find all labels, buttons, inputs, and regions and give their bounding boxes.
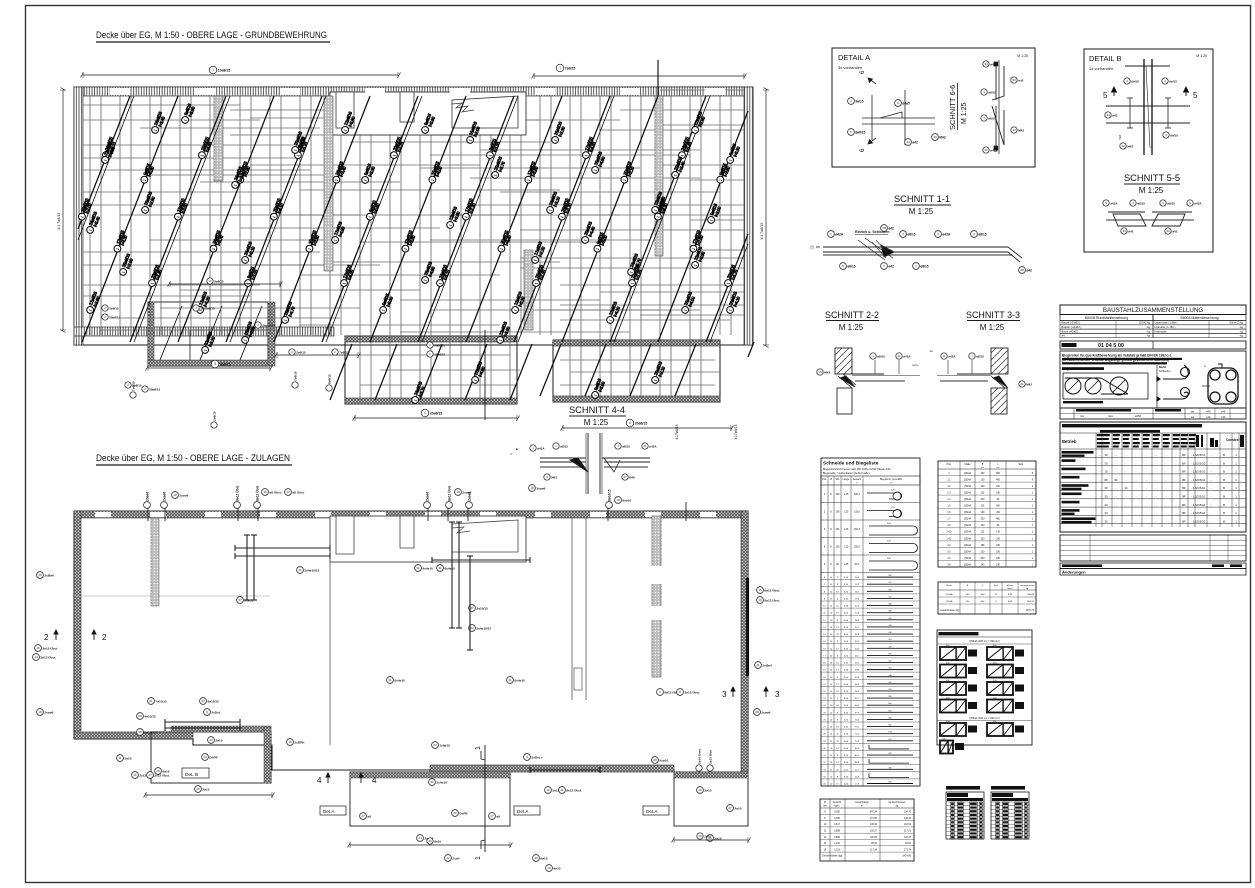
svg-text:2: 2 <box>44 633 49 642</box>
svg-text:Q524A: Q524A <box>946 600 953 603</box>
svg-text:Q524A (230 cm × 600 cm): Q524A (230 cm × 600 cm) <box>969 716 999 720</box>
svg-text:17: 17 <box>148 773 152 777</box>
BAUSTAHLZUSAMMENSTELLUNG table <box>1060 305 1246 315</box>
svg-text:m: m <box>861 806 863 808</box>
svg-text:Decke über EG, M 1:50 - OBERE: Decke über EG, M 1:50 - OBERE LAGE - GRU… <box>96 30 327 40</box>
svg-text:50,0: 50,0 <box>855 563 860 566</box>
svg-text:DETAIL A: DETAIL A <box>838 53 870 62</box>
svg-text:ø4ø5: ø4ø5 <box>902 101 910 105</box>
svg-text:16: 16 <box>38 573 42 577</box>
DETAIL A box <box>832 48 1035 167</box>
svg-text:9ø10: 9ø10 <box>434 839 441 843</box>
svg-text:BF: BF <box>1182 461 1186 465</box>
svg-text:9ø8/15: 9ø8/15 <box>220 362 231 366</box>
svg-text:-: - <box>1100 503 1101 507</box>
svg-text:33: 33 <box>1012 128 1016 132</box>
svg-text:8ø12 Übst.: 8ø12 Übst. <box>764 598 780 602</box>
svg-text:kg/m²: kg/m² <box>1008 587 1013 590</box>
svg-text:ø42: ø42 <box>1128 229 1134 233</box>
svg-text:-: - <box>1100 461 1101 465</box>
svg-text:21: 21 <box>1020 382 1024 386</box>
diagonal rebar lines <box>78 96 754 400</box>
svg-text:2ø10: 2ø10 <box>124 756 131 760</box>
SCHNITT 3-3 drawing <box>937 348 1008 414</box>
svg-text:28: 28 <box>138 714 142 718</box>
lower dims top plan <box>355 417 517 419</box>
zulage bars middle <box>244 522 473 650</box>
svg-text:3x4ø10/15: 3x4ø10/15 <box>304 568 319 572</box>
matten summary table <box>938 582 1036 614</box>
svg-text:3ø12 Übst.: 3ø12 Übst. <box>40 655 56 659</box>
svg-text:8xø10: 8xø10 <box>622 498 631 502</box>
svg-text:-: - <box>1176 478 1177 482</box>
svg-text:-: - <box>1176 503 1177 507</box>
svg-text:-: - <box>1116 511 1117 515</box>
svg-text:BøSt: BøSt <box>1159 365 1166 369</box>
svg-text:-: - <box>1156 486 1157 490</box>
svg-text:-: - <box>1166 478 1167 482</box>
svg-text:B: B <box>1223 470 1225 474</box>
svg-text:11: 11 <box>943 354 946 358</box>
svg-text:ø450: ø450 <box>1135 414 1141 418</box>
svg-text:0,888: 0,888 <box>834 831 840 833</box>
svg-text:146,91: 146,91 <box>904 818 912 820</box>
svg-text:Q524A: Q524A <box>964 472 972 475</box>
svg-text:1: 1 <box>475 856 482 860</box>
svg-text:3x4ø10/15: 3x4ø10/15 <box>476 626 491 630</box>
svg-text:Decke über EG, M 1:50 - OBERE: Decke über EG, M 1:50 - OBERE LAGE - ZUL… <box>96 453 290 463</box>
svg-text:ø8 Übst.: ø8 Übst. <box>269 490 281 494</box>
svg-text:37: 37 <box>238 598 242 602</box>
svg-text:8x4ø10: 8x4ø10 <box>422 566 433 570</box>
svg-text:ø8/15: ø8/15 <box>622 444 630 448</box>
svg-text:11: 11 <box>118 756 121 760</box>
svg-text:Listmatte ( L 184 ): Listmatte ( L 184 ) <box>1155 325 1176 329</box>
svg-text:3: 3 <box>722 690 727 699</box>
bottom plan stair void <box>330 516 526 562</box>
svg-text:-: - <box>1166 519 1167 523</box>
svg-text:34: 34 <box>1166 229 1170 233</box>
svg-text:2ø10: 2ø10 <box>734 806 741 810</box>
svg-text:30: 30 <box>1104 486 1108 490</box>
right wall band <box>744 87 753 345</box>
Matten list table <box>938 461 1036 567</box>
svg-text:-: - <box>1126 519 1127 523</box>
svg-text:Gewicht: Gewicht <box>833 801 842 804</box>
svg-text:BAUSTAHLZUSAMMENSTELLUNG: BAUSTAHLZUSAMMENSTELLUNG <box>1103 307 1203 314</box>
svg-text:8x4ø10: 8x4ø10 <box>444 566 455 570</box>
svg-text:9ø/15: 9ø/15 <box>1170 133 1178 137</box>
svg-text:2xøø6: 2xøø6 <box>761 710 770 714</box>
svg-text:2xøø6: 2xøø6 <box>536 486 545 490</box>
svg-text:-: - <box>1156 511 1157 515</box>
svg-text:7ø8: 7ø8 <box>1118 134 1122 140</box>
svg-text:Q524A: Q524A <box>964 498 972 501</box>
svg-text:-: - <box>1136 453 1137 457</box>
svg-text:B46: B46 <box>629 475 635 479</box>
top dimension line right span <box>534 75 744 77</box>
svg-text:DöPE: DöPE <box>209 755 217 759</box>
hinweis block with bend diagrams <box>1060 351 1246 408</box>
svg-text:2xøø6: 2xøø6 <box>426 492 430 501</box>
svg-text:-: - <box>1176 486 1177 490</box>
svg-text:14: 14 <box>34 655 38 659</box>
svg-text:30: 30 <box>1104 453 1108 457</box>
svg-text:30: 30 <box>534 856 538 860</box>
svg-text:1+10: 1+10 <box>946 532 952 534</box>
svg-text:min: min <box>1080 414 1085 418</box>
svg-text:18: 18 <box>530 486 534 490</box>
horizontal zulage bars <box>165 545 600 773</box>
svg-text:Matte: Matte <box>946 584 952 587</box>
svg-text:M 1:25: M 1:25 <box>584 418 609 427</box>
svg-text:-: - <box>1126 470 1127 474</box>
svg-text:ø42A: ø42A <box>903 354 911 358</box>
svg-text:M 1:25: M 1:25 <box>1196 54 1207 58</box>
svg-text:-: - <box>1126 478 1127 482</box>
svg-text:m: m <box>856 483 858 485</box>
svg-text:26: 26 <box>428 839 432 843</box>
svg-text:-: - <box>1156 461 1157 465</box>
svg-text:7ø10/15: 7ø10/15 <box>155 699 167 703</box>
left vertical dimension <box>62 90 64 330</box>
SCHNITT 6-6 (inside DETAIL A) <box>948 83 968 130</box>
svg-text:-: - <box>1116 519 1117 523</box>
svg-text:34: 34 <box>906 140 910 144</box>
svg-text:1,210: 1,210 <box>834 849 840 851</box>
svg-text:27: 27 <box>361 814 365 818</box>
svg-text:11: 11 <box>644 444 647 448</box>
svg-text:2ø10 Untn: 2ø10 Untn <box>698 749 702 764</box>
svg-text:ø42: ø42 <box>1026 268 1032 272</box>
svg-text:-: - <box>1211 470 1212 474</box>
svg-text:27: 27 <box>490 814 494 818</box>
svg-text:SCHNITT 5-5: SCHNITT 5-5 <box>1124 173 1180 183</box>
svg-text:80: 80 <box>1104 478 1108 482</box>
svg-text:-: - <box>1176 470 1177 474</box>
svg-text:30: 30 <box>1104 470 1108 474</box>
svg-text:B: B <box>1223 461 1225 465</box>
top wall band <box>74 87 753 96</box>
svg-text:-: - <box>1146 470 1147 474</box>
bottom plan right wall band <box>741 511 748 772</box>
svg-text:Gesamt: Gesamt <box>853 478 862 481</box>
svg-text:- kg: - kg <box>1146 325 1151 329</box>
section arrows in top plan <box>657 60 659 96</box>
svg-text:24ø10/15: 24ø10/15 <box>262 323 275 327</box>
svg-text:2xDeL: 2xDeL <box>211 710 220 714</box>
svg-text:-: - <box>1146 486 1147 490</box>
svg-text:-: - <box>1166 503 1167 507</box>
Matten Schneideskizze block <box>937 630 1032 745</box>
bottom plan left wall band <box>74 511 81 739</box>
svg-text:100: 100 <box>836 511 841 514</box>
svg-text:24: 24 <box>418 836 422 840</box>
svg-text:28: 28 <box>882 226 886 230</box>
svg-text:Q524A: Q524A <box>964 524 972 527</box>
svg-text:-: - <box>1211 503 1212 507</box>
svg-text:B: B <box>1223 511 1225 515</box>
svg-text:20ø8/15: 20ø8/15 <box>434 343 445 347</box>
svg-text:Gesamtmasse: Gesamtmasse <box>1020 584 1035 587</box>
svg-text:-: - <box>1126 495 1127 499</box>
svg-text:9ø/15: 9ø/15 <box>1169 79 1177 83</box>
svg-text:11: 11 <box>898 354 901 358</box>
svg-text:Bieøe ø42ø52: Bieøe ø42ø52 <box>1062 329 1079 333</box>
svg-text:-: - <box>1146 519 1147 523</box>
svg-text:-: - <box>1136 470 1137 474</box>
svg-text:-: - <box>1116 453 1117 457</box>
svg-text:cm: cm <box>890 483 893 485</box>
svg-text:-: - <box>1136 511 1137 515</box>
svg-text:334,70: 334,70 <box>904 812 912 814</box>
svg-text:-: - <box>1146 503 1147 507</box>
svg-text:M 1:25: M 1:25 <box>839 323 864 332</box>
svg-text:2ø10/15: 2ø10/15 <box>476 606 488 610</box>
svg-text:- kg: - kg <box>1239 329 1244 333</box>
svg-text:Q524A: Q524A <box>964 537 972 540</box>
svg-text:117,34: 117,34 <box>870 849 878 851</box>
left wall band <box>74 87 83 345</box>
svg-text:105,07: 105,07 <box>870 831 878 833</box>
svg-text:9ø10/15: 9ø10/15 <box>207 699 219 703</box>
svg-text:Gesamtmasse (kg): Gesamtmasse (kg) <box>822 855 842 858</box>
svg-text:Länge: Länge <box>843 478 850 481</box>
svg-text:23: 23 <box>209 738 213 742</box>
section line 1-1 <box>484 745 486 852</box>
svg-text:SCHNITT 3-3: SCHNITT 3-3 <box>966 310 1020 320</box>
svg-text:BF: BF <box>1182 495 1186 499</box>
svg-text:DETAIL B: DETAIL B <box>1089 54 1122 63</box>
svg-text:2xDPH: 2xDPH <box>294 740 305 744</box>
svg-text:-: - <box>1136 503 1137 507</box>
stirrup diagram <box>1208 364 1238 404</box>
svg-text:Lagermatte ( L/Mø ): Lagermatte ( L/Mø ) <box>1155 321 1178 325</box>
svg-text:2ø10: 2ø10 <box>704 834 711 838</box>
svg-text:11: 11 <box>560 788 563 792</box>
svg-text:-: - <box>1166 470 1167 474</box>
svg-text:20ø8/15: 20ø8/15 <box>635 421 648 425</box>
svg-text:ø8/15: ø8/15 <box>988 116 996 120</box>
svg-text:ø42A: ø42A <box>537 446 545 450</box>
svg-text:2x8ø10: 2x8ø10 <box>439 743 450 747</box>
svg-text:8x4ø10: 8x4ø10 <box>394 678 405 682</box>
svg-text:B: B <box>1223 519 1225 523</box>
svg-text:ø8/15: ø8/15 <box>560 444 568 448</box>
svg-text:cm: cm <box>997 467 1000 469</box>
svg-text:34: 34 <box>984 148 988 152</box>
svg-text:Q524A: Q524A <box>964 544 972 547</box>
svg-text:28: 28 <box>1020 268 1024 272</box>
svg-text:-: - <box>1176 461 1177 465</box>
interior wall grey <box>324 96 333 271</box>
top plan lower bump middle <box>345 336 517 404</box>
svg-text:17: 17 <box>286 490 290 494</box>
svg-text:-: - <box>1166 453 1167 457</box>
svg-text:2ø8/15: 2ø8/15 <box>213 411 217 421</box>
svg-text:120,80: 120,80 <box>870 837 878 839</box>
svg-text:Masse: Masse <box>1007 585 1014 587</box>
svg-text:ø42A: ø42A <box>1110 201 1118 205</box>
svg-text:1.5/2/5/10: 1.5/2/5/10 <box>1193 503 1206 507</box>
svg-text:3ø12 Übst.: 3ø12 Übst. <box>684 690 700 694</box>
svg-text:21: 21 <box>756 663 760 667</box>
svg-text:4: 4 <box>629 421 631 425</box>
svg-text:371,80: 371,80 <box>870 818 878 820</box>
svg-text:SCHNITT 1-1: SCHNITT 1-1 <box>894 194 950 204</box>
svg-text:25: 25 <box>698 788 702 792</box>
more top labels above bottom plan <box>161 492 168 509</box>
svg-text:2ø10: 2ø10 <box>202 787 209 791</box>
svg-text:M42: M42 <box>824 370 830 374</box>
svg-text:-: - <box>1100 486 1101 490</box>
svg-text:251,3: 251,3 <box>854 528 861 531</box>
svg-text:-: - <box>1156 519 1157 523</box>
dense schedule table 1 <box>946 786 980 790</box>
svg-text:-: - <box>1136 495 1137 499</box>
svg-text:Ø: Ø <box>824 802 826 804</box>
svg-text:-: - <box>1176 495 1177 499</box>
svg-text:30: 30 <box>1104 519 1108 523</box>
svg-text:9ø/15: 9ø/15 <box>1131 79 1139 83</box>
svg-text:M42: M42 <box>1018 128 1024 132</box>
svg-text:max: max <box>1108 415 1114 418</box>
svg-text:M42: M42 <box>551 475 557 479</box>
svg-text:2: 2 <box>102 633 107 642</box>
svg-text:31: 31 <box>438 566 442 570</box>
svg-text:M 1:25: M 1:25 <box>1017 54 1028 58</box>
svg-text:-: - <box>1156 478 1157 482</box>
svg-text:16: 16 <box>133 773 137 777</box>
svg-text:217,01: 217,01 <box>904 831 912 833</box>
svg-text:16: 16 <box>758 598 762 602</box>
interior walls bottom plan <box>329 518 331 745</box>
hook diagrams <box>1156 365 1158 408</box>
svg-text:1237,73: 1237,73 <box>1026 610 1035 612</box>
svg-text:-: - <box>1116 470 1117 474</box>
svg-text:SCHNITT 6-6: SCHNITT 6-6 <box>948 85 957 130</box>
svg-text:10ø8/15: 10ø8/15 <box>218 68 231 72</box>
svg-text:200: 200 <box>836 546 841 549</box>
top plan outer wall outline <box>74 87 753 345</box>
svg-text:Ø: Ø <box>830 478 832 481</box>
svg-text:171,74: 171,74 <box>904 849 912 851</box>
svg-text:2xØø4: 2xØø4 <box>762 663 772 667</box>
DETAIL B box <box>1084 49 1213 252</box>
svg-text:-: - <box>1136 486 1137 490</box>
svg-text:34: 34 <box>1122 229 1126 233</box>
svg-text:1,25: 1,25 <box>844 563 849 566</box>
svg-text:5: 5 <box>1193 91 1198 100</box>
svg-text:-: - <box>1156 470 1157 474</box>
svg-text:31: 31 <box>508 678 512 682</box>
svg-text:ø42: ø42 <box>1112 113 1118 117</box>
top wall band white gaps <box>110 88 725 95</box>
svg-text:B500A Mattenbewehrung: B500A Mattenbewehrung <box>1180 316 1218 320</box>
svg-text:27: 27 <box>470 606 474 610</box>
dim lines under bottom rooms <box>350 844 510 846</box>
bottom plan outer outline <box>74 511 748 772</box>
svg-text:-: - <box>1126 503 1127 507</box>
svg-text:8ø10/15: 8ø10/15 <box>608 489 612 501</box>
svg-text:8x12 Übst.: 8x12 Übst. <box>566 788 582 792</box>
svg-text:3xDeL+: 3xDeL+ <box>531 755 542 759</box>
svg-text:Q524A: Q524A <box>964 550 972 553</box>
svg-text:Q524A: Q524A <box>964 518 972 521</box>
svg-text:DöPE: DöPE <box>459 811 467 815</box>
svg-text:-: - <box>1166 495 1167 499</box>
Schneide- und Biegeliste table <box>821 458 920 786</box>
svg-text:BF: BF <box>1182 470 1186 474</box>
svg-text:-: - <box>1176 453 1177 457</box>
svg-text:2ø8/15: 2ø8/15 <box>296 350 306 354</box>
svg-text:ø8/15: ø8/15 <box>847 264 855 268</box>
interior hatched pier bottom-left <box>151 518 159 606</box>
svg-text:ø8/15: ø8/15 <box>978 232 986 236</box>
svg-text:B: B <box>1223 486 1225 490</box>
svg-text:×4b: ×4b <box>1206 415 1211 419</box>
svg-text:-: - <box>1116 495 1117 499</box>
svg-text:-: - <box>1136 461 1137 465</box>
svg-text:⓵: ⓵ <box>810 244 814 250</box>
svg-text:Matte: Matte <box>965 463 972 466</box>
svg-text:3ø10 Übst.: 3ø10 Übst. <box>42 646 58 650</box>
svg-text:1.5/2/5/10: 1.5/2/5/10 <box>1193 453 1206 457</box>
svg-text:5: 5 <box>1103 91 1108 100</box>
svg-text:1.5/2/5/10: 1.5/2/5/10 <box>1193 470 1206 474</box>
svg-text:15: 15 <box>36 646 40 650</box>
svg-text:2xøø6: 2xøø6 <box>163 492 167 501</box>
top plan lower-left rooms <box>148 302 268 366</box>
SCHNITT 4-4 drawing <box>540 433 650 494</box>
svg-text:23: 23 <box>470 626 474 630</box>
svg-text:-: - <box>1166 461 1167 465</box>
svg-text:9ø10: 9ø10 <box>540 856 547 860</box>
svg-text:31: 31 <box>149 699 153 703</box>
svg-text:8ø12 Übst.: 8ø12 Übst. <box>447 485 452 501</box>
svg-text:30: 30 <box>201 699 205 703</box>
rebar position labels <box>77 197 94 222</box>
svg-text:-: - <box>1176 511 1177 515</box>
SCHNITT 5-5 drawing <box>1106 212 1194 226</box>
svg-text:15: 15 <box>818 370 822 374</box>
svg-text:29: 29 <box>698 834 702 838</box>
svg-text:9ø10: 9ø10 <box>553 866 560 870</box>
svg-text:-: - <box>1100 495 1101 499</box>
svg-text:①17ø8/15: ①17ø8/15 <box>675 424 679 440</box>
svg-text:29ø8/15: 29ø8/15 <box>109 315 120 319</box>
svg-text:-: - <box>1100 453 1101 457</box>
svg-text:- kg: - kg <box>1239 334 1244 338</box>
dark wall segment right <box>746 578 749 676</box>
svg-text:2ø10/15: 2ø10/15 <box>144 730 156 734</box>
svg-text:125/42 kg: 125/42 kg <box>1139 321 1151 325</box>
svg-text:-: - <box>1116 503 1117 507</box>
svg-text:ø8 Übst.: ø8 Übst. <box>292 490 304 494</box>
svg-text:-: - <box>1166 486 1167 490</box>
svg-text:201: 201 <box>836 528 841 531</box>
svg-text:0,395: 0,395 <box>834 818 840 820</box>
svg-text:33: 33 <box>1012 78 1016 82</box>
svg-text:1: 1 <box>475 746 482 750</box>
top plan lower bump right <box>553 340 720 402</box>
svg-text:-: - <box>1176 519 1177 523</box>
svg-text:2xØø6: 2xØø6 <box>44 573 54 577</box>
svg-text:2xøø6: 2xøø6 <box>468 492 472 501</box>
svg-text:-: - <box>1211 511 1212 515</box>
svg-text:8ø12 Übst.: 8ø12 Übst. <box>235 485 240 501</box>
svg-text:ø8/15: ø8/15 <box>1167 201 1175 205</box>
